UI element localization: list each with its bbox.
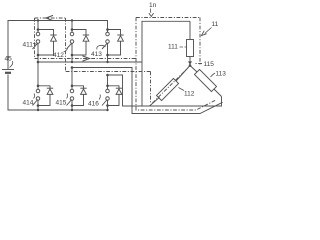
battery 45 negative plate xyxy=(5,72,11,74)
svg-text:115: 115 xyxy=(204,61,215,68)
wire battery bottom rail xyxy=(8,75,108,111)
svg-text:413: 413 xyxy=(91,51,102,58)
motor unit solid outline top and left xyxy=(142,21,190,106)
switch 412 blade xyxy=(67,43,72,49)
leader 413 xyxy=(97,45,106,49)
wire battery top to top rail xyxy=(8,21,108,70)
diode D411 loop xyxy=(38,30,54,56)
junction dots 412 xyxy=(71,28,74,31)
diode D414 symbol xyxy=(47,87,53,89)
wire phase row3 to winding 113 xyxy=(108,75,222,106)
switch 415 contacts xyxy=(70,89,74,93)
arrow down into neutral 115 xyxy=(188,61,192,64)
wire 413 lower xyxy=(107,43,109,62)
wire 414 upper xyxy=(37,62,39,89)
switch 414 contacts xyxy=(36,89,40,93)
svg-text:11: 11 xyxy=(212,21,219,28)
path left vertical beside 411 xyxy=(34,18,36,59)
path return vertical right of 112 xyxy=(151,70,187,103)
path into neutral xyxy=(194,63,202,65)
arrow left on top path xyxy=(46,15,53,20)
diode D411 symbol xyxy=(50,34,56,36)
junction dots 411 xyxy=(37,28,40,31)
diode D415 loop xyxy=(72,86,84,106)
switch 413 contacts xyxy=(106,32,110,36)
svg-text:415: 415 xyxy=(56,100,67,107)
switch 412 contacts xyxy=(70,32,74,36)
switch 413 upper wire xyxy=(107,30,109,33)
svg-text:1n: 1n xyxy=(149,2,157,9)
path top horizontal with left arrow xyxy=(35,17,66,19)
junction dot leg1 rail xyxy=(37,19,39,21)
svg-text:45: 45 xyxy=(5,56,13,63)
wire 415 lower xyxy=(71,100,73,110)
path vertical beside 412 xyxy=(65,18,67,72)
wire 412 lower xyxy=(71,43,73,62)
wire 411 lower xyxy=(37,43,39,62)
wire 111 to neutral xyxy=(189,57,191,66)
leader 411 xyxy=(33,42,36,45)
junction dots 414 xyxy=(37,85,40,88)
diode D415 symbol xyxy=(80,87,86,89)
wire phase row1 xyxy=(38,61,142,63)
switch 414 blade xyxy=(33,100,38,106)
svg-text:412: 412 xyxy=(53,52,64,59)
junction dot row1 leg3 xyxy=(106,61,108,63)
diode D412 loop xyxy=(72,30,86,56)
diode D416 symbol xyxy=(116,87,122,89)
svg-text:411: 411 xyxy=(23,42,34,49)
wire 113 outer lead xyxy=(214,89,222,97)
leader 414 xyxy=(34,94,35,99)
switch 412 upper wire xyxy=(71,21,73,33)
wire 416 upper xyxy=(107,75,109,89)
diode D414 loop xyxy=(38,86,50,106)
junction dot row1 leg2 xyxy=(71,61,73,63)
wire phase row2 to winding 112 xyxy=(72,68,223,114)
switch 416 blade xyxy=(102,100,107,106)
switch 416 contacts xyxy=(106,89,110,93)
leader 45 xyxy=(10,61,13,68)
wire 414 lower xyxy=(37,100,39,110)
leader 1n arrow xyxy=(149,9,151,13)
switch 415 blade xyxy=(67,100,72,106)
leader 112 xyxy=(179,88,185,91)
switch 411 blade xyxy=(33,43,38,49)
motor unit dash-dot box top xyxy=(136,17,200,19)
switch 411 contacts xyxy=(36,32,40,36)
diode D413 loop xyxy=(108,30,121,56)
svg-text:414: 414 xyxy=(23,100,34,107)
arrow right on mid path xyxy=(83,56,90,61)
leader 111 dash xyxy=(180,46,187,48)
wire 113 to neutral xyxy=(190,66,197,73)
winding 113 xyxy=(194,69,216,91)
svg-text:416: 416 xyxy=(88,101,99,108)
wire 415 upper xyxy=(71,68,73,90)
battery 45 positive plate xyxy=(2,69,14,71)
svg-text:111: 111 xyxy=(168,44,178,51)
diode D412 symbol xyxy=(83,34,89,36)
leader 412 xyxy=(64,49,68,53)
wire 112 to neutral xyxy=(176,66,190,82)
svg-text:112: 112 xyxy=(184,91,195,98)
diode D413 symbol xyxy=(117,34,123,36)
switch 413 blade xyxy=(102,43,107,49)
winding 112 xyxy=(156,78,178,100)
junction dot leg2 rail xyxy=(71,19,73,21)
junction dots 413 xyxy=(106,28,109,31)
diode D416 loop xyxy=(108,86,120,106)
neutral node 115 xyxy=(189,64,192,67)
junction dot leg2 bottom rail xyxy=(71,109,73,111)
junction dots 416 xyxy=(106,85,109,88)
leader 11 arrow xyxy=(205,28,212,34)
path return row xyxy=(66,71,151,73)
svg-text:113: 113 xyxy=(216,71,227,78)
motor unit dash-dot box left and bottom xyxy=(136,18,216,111)
switch 411 upper wire xyxy=(37,21,39,33)
leader 415 xyxy=(67,94,68,99)
junction dots 415 xyxy=(71,85,74,88)
current path dash-dot xyxy=(35,18,216,111)
wire 416 lower xyxy=(107,100,109,110)
junction dot leg3 bottom rail xyxy=(106,109,108,111)
leader 416 xyxy=(99,95,100,100)
leader 113 xyxy=(211,73,216,77)
motor unit dash-dot box right xyxy=(199,18,201,67)
junction dot leg1 bottom rail xyxy=(37,109,39,111)
winding 111 resistor xyxy=(187,40,194,57)
path mid row toward motor xyxy=(35,58,137,60)
wire resistor 111 feed xyxy=(189,21,191,39)
